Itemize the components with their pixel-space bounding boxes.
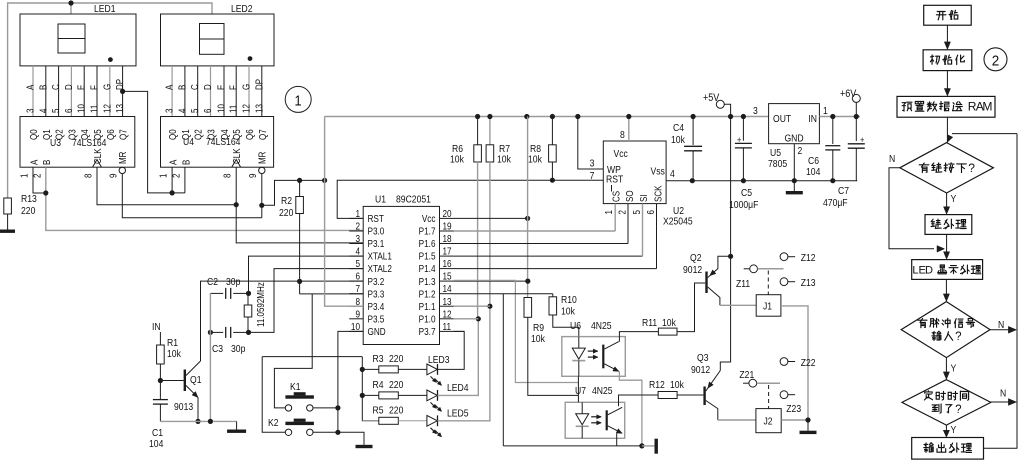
node Q1 base tap	[158, 378, 163, 383]
svg-text:220: 220	[389, 405, 403, 417]
svg-text:XTAL2: XTAL2	[368, 263, 392, 274]
svg-text:2: 2	[617, 210, 628, 214]
svg-text:7: 7	[355, 283, 360, 294]
svg-text:+6V: +6V	[840, 88, 857, 100]
terminal Z12	[780, 253, 788, 261]
svg-text:G: G	[101, 84, 112, 90]
label circled 1	[285, 86, 311, 112]
svg-text:Q4: Q4	[79, 129, 90, 140]
resistor R8	[551, 117, 553, 145]
wire LED2 segment B to shift register	[184, 66, 186, 117]
wire cap common to ground rail	[209, 293, 211, 421]
resistor R6	[477, 117, 479, 145]
svg-text:10: 10	[351, 321, 360, 332]
svg-text:Q1: Q1	[190, 374, 201, 386]
pin 4 XTAL1 of U1	[349, 255, 363, 257]
svg-text:K1: K1	[290, 381, 301, 393]
svg-text:Q7: Q7	[118, 129, 129, 140]
svg-text:Y: Y	[951, 424, 957, 436]
pin 7 P3.3 of U1	[349, 293, 363, 295]
transistor Q3 9012	[703, 387, 705, 406]
svg-text:10: 10	[216, 104, 227, 113]
svg-text:1: 1	[294, 91, 301, 108]
optocoupler U6 box	[562, 337, 626, 377]
relay J2 contact arm	[757, 382, 780, 384]
svg-text:4: 4	[177, 109, 188, 113]
svg-text:1000μF: 1000μF	[729, 199, 758, 211]
svg-text:RST: RST	[606, 174, 623, 186]
wire emitter ground rail	[160, 420, 236, 422]
svg-text:SCK: SCK	[653, 186, 664, 202]
flowchart arrow 4	[946, 234, 948, 254]
svg-text:SO: SO	[624, 190, 635, 202]
wire to ground bar	[642, 445, 655, 447]
wire U4 MR net	[261, 174, 263, 206]
wire LED common top rail	[8, 3, 212, 198]
flowchart decision 定时时间到了	[902, 380, 991, 426]
svg-text:LED4: LED4	[447, 382, 469, 394]
capacitor C6	[832, 117, 834, 145]
push button K1	[285, 395, 314, 398]
node Q1 emitter	[195, 419, 200, 424]
wire XTAL2 to crystal	[249, 269, 364, 333]
svg-text:220: 220	[21, 205, 35, 217]
wire P1.5 to U2 SI	[454, 255, 643, 257]
wire RST net U1 pin1 to U2 RST	[337, 180, 603, 218]
wire P1.2 branch to ground line	[502, 294, 504, 446]
svg-text:5: 5	[355, 258, 360, 269]
node C3 right	[246, 330, 251, 335]
pin 4 Vss of U2	[666, 180, 692, 182]
wire LED1 segment DP to shift register	[122, 66, 124, 117]
node R2 top	[297, 178, 302, 183]
wire R10 to U6 anode	[553, 315, 579, 337]
wire J1 to ground vertical	[781, 306, 808, 420]
wire P3.4 to plus5 vertical	[325, 117, 364, 307]
svg-text:F: F	[89, 85, 100, 90]
node top rail junction	[68, 0, 73, 5]
svg-text:5: 5	[631, 210, 642, 214]
svg-text:89C2051: 89C2051	[396, 194, 431, 206]
resistor R12	[658, 392, 677, 399]
wire +5V vertical to transistors	[730, 117, 732, 257]
svg-text:P3.4: P3.4	[368, 301, 385, 312]
wire R2 to P3.2 node	[299, 214, 301, 282]
terminal Z11	[744, 268, 750, 270]
svg-text:Z11: Z11	[736, 278, 750, 290]
terminal Z13	[780, 278, 788, 286]
svg-text:R10: R10	[561, 294, 577, 306]
wire GND pin10 to resistor rail	[338, 331, 363, 356]
node C7 rail	[854, 114, 859, 119]
svg-text:J1: J1	[763, 301, 772, 313]
svg-text:SI: SI	[638, 194, 649, 202]
svg-text:P1.0: P1.0	[419, 314, 436, 325]
svg-text:1: 1	[158, 174, 169, 178]
svg-text:13: 13	[114, 104, 125, 113]
wire P1.6 to U2 SO	[454, 243, 629, 245]
svg-text:104: 104	[149, 438, 164, 450]
node C6 bottom	[830, 178, 835, 183]
svg-text:D: D	[202, 84, 213, 90]
IC U1 89C2051 box	[363, 206, 439, 344]
svg-text:Vcc: Vcc	[614, 148, 629, 160]
svg-text:P1.1: P1.1	[419, 301, 436, 312]
svg-text:11: 11	[443, 321, 452, 332]
flowchart arrow 3	[946, 193, 948, 209]
svg-text:E: E	[216, 85, 227, 90]
wire P1.2 to R10	[454, 293, 553, 295]
wire K2 left branch	[262, 357, 285, 433]
node R7 rail	[487, 114, 492, 119]
label circled 2	[984, 48, 1007, 71]
svg-text:C: C	[189, 84, 200, 90]
flowchart loop return line	[984, 134, 1018, 449]
wire R11 to Q2 base	[677, 283, 705, 332]
svg-text:Q7: Q7	[257, 129, 268, 140]
svg-text:B: B	[180, 160, 191, 165]
wire Q2 collector to J1	[720, 304, 756, 306]
capacitor C3	[225, 327, 227, 338]
pin 8 Vcc of U2	[628, 117, 630, 142]
pin 6 P3.2 of U1	[349, 280, 363, 282]
optocoupler U7 box	[565, 402, 625, 438]
LED LED4	[398, 394, 427, 396]
svg-text:GND: GND	[368, 326, 387, 337]
wire XTAL1 to crystal	[249, 256, 364, 293]
svg-text:8: 8	[620, 129, 625, 141]
flowchart merge arrow into loop top	[946, 117, 948, 142]
wire R8 to RST line	[551, 162, 553, 180]
wire LED5 cathode to P1.1 R7 net	[438, 306, 490, 421]
node +5V feed	[728, 114, 733, 119]
optocoupler U6 LED	[578, 337, 580, 349]
svg-text:C5: C5	[741, 187, 752, 199]
svg-text:R13: R13	[21, 193, 37, 205]
wire P3.3 branch to K1	[274, 294, 312, 408]
wire U7 emitter to ground line	[616, 433, 618, 446]
svg-text:Q3: Q3	[206, 129, 217, 140]
svg-text:GND: GND	[784, 133, 803, 145]
svg-text:6: 6	[63, 109, 74, 113]
capacitor C1	[153, 399, 168, 401]
pin 13 P1.1 of U1	[440, 305, 454, 307]
svg-text:A: A	[25, 84, 36, 90]
wire LED1 segment G to shift register	[109, 66, 111, 117]
resistor R13	[4, 198, 12, 214]
svg-text:13: 13	[443, 296, 452, 307]
pin 20 Vcc of U1	[440, 217, 454, 219]
svg-text:4: 4	[670, 168, 675, 180]
svg-text:CS: CS	[611, 191, 622, 202]
wire LED2 segment G to shift register	[248, 66, 250, 117]
wire LED1 feed drop	[70, 3, 72, 14]
wire U4 CLK to P3.1	[235, 167, 237, 205]
transistor Q1 9013	[184, 370, 186, 392]
resistor R9	[524, 298, 532, 318]
wire P1.7 to U2 CS	[454, 230, 616, 232]
svg-text:14: 14	[443, 283, 452, 294]
svg-text:R4: R4	[373, 379, 385, 391]
wire Vcc pin20 to +5V	[454, 217, 528, 219]
svg-text:R12: R12	[649, 379, 665, 391]
node C4 bottom	[690, 178, 695, 183]
node R8 rail	[550, 114, 555, 119]
pin 3 P3.1 of U1	[349, 243, 363, 245]
svg-text:N: N	[889, 153, 895, 165]
svg-text:B: B	[177, 85, 188, 90]
svg-text:6: 6	[355, 271, 360, 282]
wire LED1 segment C to shift register	[58, 66, 60, 117]
optocoupler U7 phototransistor	[606, 410, 608, 430]
svg-text:C2: C2	[207, 276, 218, 288]
svg-text:C3: C3	[212, 343, 223, 355]
transistor Q2 9012	[705, 272, 707, 294]
wire R12 to Q3 base	[677, 394, 703, 396]
wire +5V rail	[325, 116, 769, 118]
svg-text:J2: J2	[764, 416, 773, 428]
svg-text:+: +	[860, 135, 864, 145]
flowchart arrow 1	[946, 25, 948, 44]
pin 5 XTAL2 of U1	[349, 268, 363, 270]
optocoupler U6 phototransistor	[602, 345, 604, 369]
svg-text:U6: U6	[570, 320, 581, 332]
node C6 rail	[830, 114, 835, 119]
svg-text:6: 6	[645, 210, 656, 214]
capacitor C2	[225, 288, 227, 299]
svg-text:Z13: Z13	[801, 277, 816, 289]
LED LED3	[398, 368, 427, 370]
terminal Z23	[780, 391, 788, 399]
svg-text:LED1: LED1	[94, 3, 116, 15]
pin 19 P1.7 of U1	[440, 230, 454, 232]
svg-text:8: 8	[355, 296, 360, 307]
svg-text:2: 2	[992, 53, 1000, 70]
capacitor C5 electrolytic	[742, 117, 744, 141]
pin 2 GND of U5	[793, 144, 795, 181]
crystal Y1 11.0592MHz	[244, 305, 252, 317]
wire R2 net to P3.3	[299, 281, 301, 294]
flowchart box 初始化	[923, 50, 972, 71]
svg-text:9012: 9012	[691, 364, 710, 376]
svg-text:P1.6: P1.6	[419, 238, 436, 249]
svg-text:OUT: OUT	[773, 113, 791, 125]
svg-text:P3.3: P3.3	[368, 289, 385, 300]
svg-text:12: 12	[241, 104, 252, 113]
flowchart box 输出处理	[912, 438, 984, 460]
svg-text:Vss: Vss	[651, 166, 666, 178]
wire J2 to ground	[781, 419, 808, 421]
svg-text:20: 20	[443, 208, 452, 219]
pin 12 P1.0 of U1	[440, 318, 454, 320]
flowchart box 预置数据送RAM	[897, 96, 995, 117]
svg-text:LED2: LED2	[231, 3, 253, 15]
svg-text:5: 5	[189, 109, 200, 113]
wire LED2 segment DP to shift register	[261, 66, 263, 117]
optocoupler U7 LED	[581, 402, 583, 414]
svg-text:2: 2	[355, 221, 360, 232]
svg-text:12: 12	[101, 104, 112, 113]
resistor R1	[157, 345, 165, 364]
svg-text:P1.7: P1.7	[419, 226, 436, 237]
pin 17 P1.5 of U1	[440, 255, 454, 257]
svg-text:DP: DP	[253, 79, 264, 90]
wire Q3 collector to J2	[718, 419, 756, 421]
svg-text:U7: U7	[575, 385, 586, 397]
ground near K2	[356, 445, 373, 448]
node K2 right	[335, 430, 340, 435]
svg-text:Z23: Z23	[786, 403, 801, 415]
svg-text:A: A	[164, 84, 175, 90]
wire P3.7 row	[454, 330, 465, 332]
wire U7 collector to R12	[619, 395, 659, 406]
svg-text:?: ?	[955, 330, 962, 343]
wire U3 MR net	[122, 174, 261, 218]
node CLK junction U4	[234, 202, 239, 207]
wire P1.4 to U2 SCK	[454, 268, 657, 270]
svg-text:Y: Y	[951, 193, 957, 205]
svg-text:E: E	[76, 85, 87, 90]
node WP rail	[575, 114, 580, 119]
svg-text:220: 220	[389, 353, 403, 365]
svg-text:10k: 10k	[561, 306, 575, 318]
wire R-left vertical	[362, 357, 379, 421]
wire +5V drop to pin20	[527, 117, 529, 298]
svg-text:3: 3	[25, 109, 36, 113]
svg-text:10k: 10k	[531, 333, 545, 345]
svg-text:Q2: Q2	[690, 252, 701, 264]
wire R9 to opto node	[528, 317, 579, 395]
svg-text:3: 3	[164, 109, 175, 113]
relay coil J1 box	[756, 295, 781, 317]
svg-text:9012: 9012	[683, 264, 702, 276]
svg-text:6: 6	[202, 109, 213, 113]
svg-text:R2: R2	[281, 195, 292, 207]
wire SO drop	[627, 204, 629, 244]
svg-text:Q5: Q5	[231, 129, 242, 140]
svg-text:Q0: Q0	[167, 129, 178, 140]
node U3 A-B junction	[43, 190, 48, 195]
node R2 bottom on P3.2 wire	[297, 279, 302, 284]
svg-text:Q4: Q4	[219, 129, 230, 140]
svg-text:+: +	[737, 135, 741, 145]
svg-text:C7: C7	[838, 185, 849, 197]
ground right of J2	[807, 420, 809, 431]
svg-text:Z22: Z22	[801, 357, 816, 369]
svg-text:30p: 30p	[226, 276, 240, 288]
svg-text:?: ?	[955, 403, 962, 416]
svg-text:IN: IN	[808, 113, 817, 125]
svg-text:P1.4: P1.4	[419, 263, 436, 274]
node U4 A-B junction	[170, 190, 175, 195]
svg-text:A: A	[29, 159, 40, 165]
svg-text:P3.1: P3.1	[368, 238, 385, 249]
wire U6 cathode to U7 anode junction	[577, 376, 579, 402]
node U2 Vcc rail	[626, 114, 631, 119]
wire LED1 segment B to shift register	[45, 66, 47, 117]
svg-text:1: 1	[823, 105, 828, 117]
svg-text:1: 1	[603, 210, 614, 214]
capacitor C4	[692, 117, 694, 146]
svg-text:B: B	[41, 160, 52, 165]
svg-text:10k: 10k	[450, 154, 464, 166]
svg-text:R11: R11	[642, 317, 657, 329]
wire P1.3 to R9	[454, 280, 528, 282]
svg-text:30p: 30p	[231, 343, 245, 355]
svg-text:Q5: Q5	[92, 129, 103, 140]
wire LED1 segment D to shift register	[70, 66, 72, 117]
svg-text:220: 220	[389, 379, 403, 391]
wire Vss ground line	[692, 180, 857, 182]
wire LED2 segment F to shift register	[235, 66, 237, 117]
wire LED3 cathode to P3.7	[438, 331, 465, 369]
wire K2 right to ground	[313, 431, 338, 433]
node U5 gnd	[792, 178, 797, 183]
node R7 P1.1 junction	[487, 304, 492, 309]
node Vcc rail tap	[524, 114, 529, 119]
pin 11 P3.7 of U1	[440, 330, 454, 332]
wire LED2 segment E to shift register	[223, 66, 225, 117]
svg-text:9: 9	[107, 174, 118, 178]
display LED2 decimal point	[248, 56, 253, 61]
wire P3.2 to Q1 collector	[201, 281, 364, 361]
node R8 RST junction	[550, 178, 555, 183]
svg-text:17: 17	[443, 246, 452, 257]
ground below U5	[793, 181, 795, 191]
wire U3 CLK net	[97, 167, 236, 205]
svg-text:11: 11	[89, 105, 100, 113]
relay J1 contact arm	[758, 268, 784, 270]
display LED2 box	[161, 14, 275, 66]
display LED1 box	[20, 14, 136, 66]
svg-text:A: A	[168, 159, 179, 165]
svg-text:4: 4	[355, 246, 360, 257]
flowchart decision 有脉冲信号输入	[901, 302, 990, 358]
svg-text:Q1: Q1	[180, 129, 191, 140]
svg-text:10k: 10k	[497, 154, 511, 166]
svg-text:N: N	[1000, 388, 1006, 400]
wire opto ground line	[503, 445, 642, 447]
svg-text:18: 18	[443, 233, 452, 244]
IC U3 74LS164 box	[20, 117, 135, 168]
wire P1.1 row	[454, 305, 490, 307]
node opto ground	[639, 443, 644, 448]
svg-text:Q1: Q1	[41, 129, 52, 140]
relay coil J2 box	[756, 409, 781, 433]
svg-text:R3: R3	[373, 353, 384, 365]
svg-text:4N25: 4N25	[591, 320, 612, 332]
terminal Z21	[743, 382, 749, 384]
node Q2 emitter +5V	[728, 254, 733, 259]
resistor R5	[362, 420, 379, 422]
svg-text:10k: 10k	[671, 134, 685, 146]
display LED1 decimal point	[108, 57, 113, 62]
svg-text:220: 220	[279, 207, 293, 219]
wire LED2 segment D to shift register	[210, 66, 212, 117]
svg-text:9: 9	[355, 309, 360, 320]
IC U2 X25045 box	[603, 141, 666, 204]
wire Q7 cascade LED1 DP to U4 inputs	[123, 91, 185, 192]
flowchart decision 有键按下	[900, 143, 994, 193]
terminal Z22	[780, 358, 788, 366]
node R6 P1.0 junction	[476, 316, 481, 321]
svg-text:M: M	[982, 100, 992, 114]
resistor R7	[489, 117, 491, 145]
wire LED2 segment C to shift register	[197, 66, 199, 117]
svg-text:3: 3	[590, 158, 595, 170]
node R9 top	[525, 279, 530, 284]
svg-text:MR: MR	[117, 151, 128, 164]
